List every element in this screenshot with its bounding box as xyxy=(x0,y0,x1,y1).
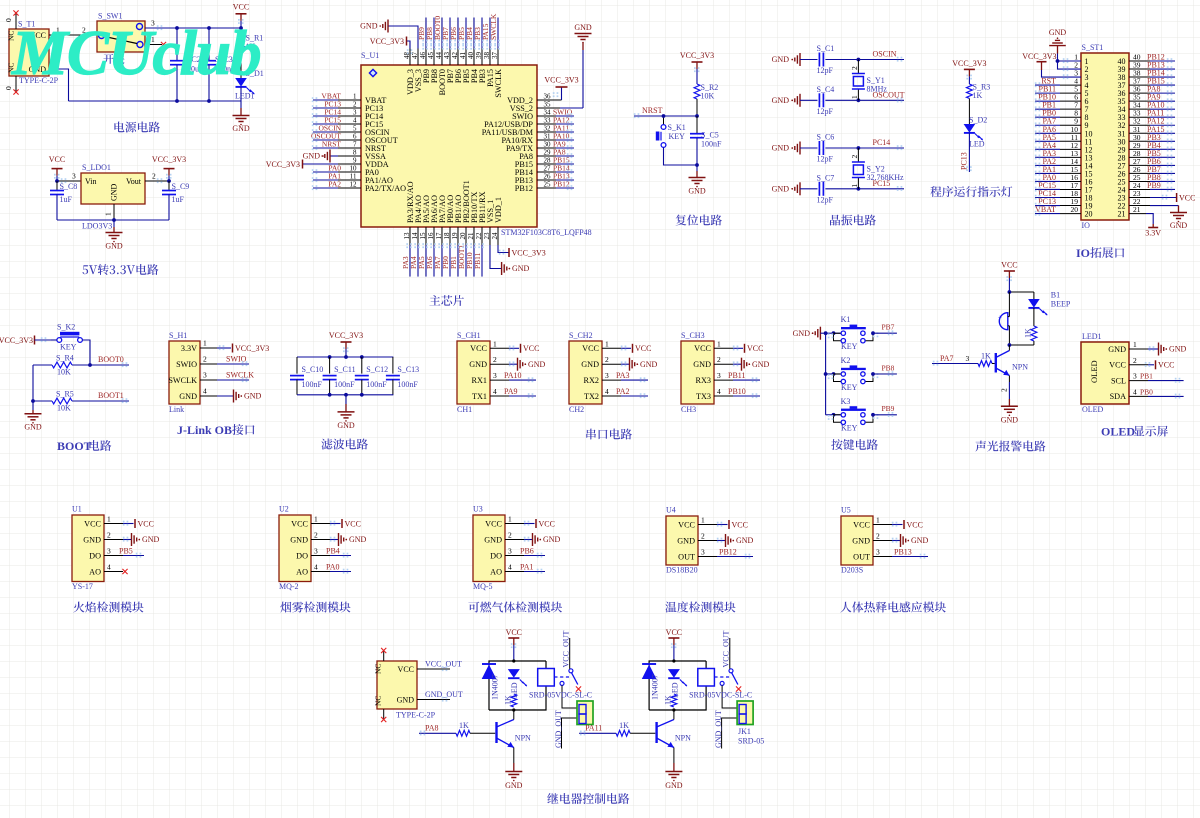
svg-text:VCC: VCC xyxy=(582,344,599,353)
header pin number 13 inside xyxy=(1085,153,1093,162)
wire net PB7 top xyxy=(441,18,452,66)
svg-text:PB9: PB9 xyxy=(1147,181,1161,190)
svg-text:35: 35 xyxy=(544,101,552,109)
power flag VCC_3V3 indicator xyxy=(952,59,986,84)
wire to gnd ldo xyxy=(113,220,115,233)
wire net PB8 header right xyxy=(1129,173,1175,184)
power flag VCC CH2 pin1 xyxy=(602,339,651,353)
svg-text:SDA: SDA xyxy=(1110,392,1126,401)
svg-text:+: + xyxy=(998,314,1002,322)
svg-text:GND_OUT: GND_OUT xyxy=(714,710,723,748)
title alarm circuit xyxy=(975,441,1045,452)
key K1 xyxy=(826,315,879,351)
svg-text:GND: GND xyxy=(665,781,683,790)
svg-text:GND: GND xyxy=(512,264,530,273)
ground GND relay PA11 xyxy=(665,772,683,791)
wire net PB5 U1 pin3 xyxy=(104,547,144,558)
ground GND U3 pin2 xyxy=(505,531,561,547)
svg-text:MQ-2: MQ-2 xyxy=(279,582,299,591)
wire net PA0 U2 pin4 xyxy=(311,563,351,574)
wire net PA10 CH1 pin3 xyxy=(490,371,536,382)
svg-text:29: 29 xyxy=(544,149,552,157)
header H1 jlink body xyxy=(168,331,200,414)
svg-text:VCC: VCC xyxy=(1158,361,1174,370)
svg-text:PA0: PA0 xyxy=(326,563,340,572)
wire net PA1 U3 pin4 xyxy=(505,563,545,574)
wire net PC13 indicator xyxy=(960,133,972,172)
svg-text:1N4007: 1N4007 xyxy=(650,674,659,700)
wire net PB0 bottom xyxy=(441,227,452,277)
svg-text:10K: 10K xyxy=(701,92,715,101)
relay switch PA11 xyxy=(714,669,741,692)
svg-text:3: 3 xyxy=(966,354,970,363)
mcu pin name VDD_2 xyxy=(507,93,551,105)
wire net PB12 right xyxy=(537,180,574,191)
svg-text:PB9: PB9 xyxy=(882,404,895,413)
mcu pin name PB8 xyxy=(427,52,439,84)
svg-text:S_LDO1: S_LDO1 xyxy=(82,163,111,172)
svg-text:S_C11: S_C11 xyxy=(334,365,356,374)
svg-text:S_CH1: S_CH1 xyxy=(457,331,481,340)
svg-text:GND: GND xyxy=(469,360,487,369)
wire net PA3 CH2 pin3 xyxy=(602,371,648,382)
svg-text:GND: GND xyxy=(397,696,415,705)
wire net PB1 oled pin3 xyxy=(1129,372,1184,383)
title 火焰检测模块 xyxy=(73,602,143,613)
svg-text:VCC: VCC xyxy=(138,519,154,528)
svg-text:4: 4 xyxy=(605,387,609,396)
transistor NPN relay PA11 xyxy=(657,710,692,748)
mcu pin name PA11/USB/DM xyxy=(482,125,551,137)
connector T1 TYPE-C-2P xyxy=(7,20,59,86)
svg-text:PB4: PB4 xyxy=(326,547,340,556)
svg-text:PA8: PA8 xyxy=(425,724,439,733)
svg-text:VCC: VCC xyxy=(233,3,249,12)
svg-text:34: 34 xyxy=(544,109,552,117)
capacitor C3 xyxy=(202,26,236,103)
svg-text:S_C1: S_C1 xyxy=(817,44,835,53)
wire net PA9 CH1 pin4 xyxy=(490,387,536,398)
svg-text:1: 1 xyxy=(104,212,113,216)
resistor 1K alarm xyxy=(1024,308,1037,345)
resistor R4 xyxy=(33,354,92,377)
svg-text:GND: GND xyxy=(852,536,870,545)
svg-text:3: 3 xyxy=(701,548,705,557)
power flag VCC U3 pin1 xyxy=(505,515,555,529)
title power circuit xyxy=(114,122,159,133)
svg-text:SCL: SCL xyxy=(1111,376,1126,385)
svg-text:S_C13: S_C13 xyxy=(397,365,419,374)
resistor 1K base PA11 xyxy=(579,721,655,736)
svg-text:2: 2 xyxy=(850,155,859,159)
header pin number 6 inside xyxy=(1085,97,1089,106)
svg-text:1K: 1K xyxy=(1024,328,1033,338)
header pin number 16 inside xyxy=(1085,177,1093,186)
svg-text:VCC: VCC xyxy=(1179,193,1195,202)
pin LDO pin1 down xyxy=(104,204,115,220)
svg-text:10K: 10K xyxy=(57,368,71,377)
svg-text:PB7: PB7 xyxy=(882,323,895,332)
svg-text:S_C12: S_C12 xyxy=(366,365,388,374)
module U2 MQ-2 body xyxy=(279,505,311,592)
power flag VCC ldo xyxy=(49,155,65,181)
wire net GND_OUT t2 xyxy=(417,690,463,702)
svg-text:S_R4: S_R4 xyxy=(56,354,74,363)
svg-text:21: 21 xyxy=(1133,205,1141,214)
wire net PA2 header left xyxy=(1035,157,1081,168)
svg-text:2: 2 xyxy=(701,532,705,541)
svg-text:GND: GND xyxy=(83,535,101,544)
svg-text:Vin: Vin xyxy=(85,177,97,186)
svg-text:RX3: RX3 xyxy=(696,376,711,385)
power flag 3.3V header pin21 xyxy=(1129,205,1161,237)
ground GND CH1 pin2 xyxy=(490,355,546,371)
svg-text:PA2/TX/AO: PA2/TX/AO xyxy=(365,184,406,193)
wire net PA10 header right xyxy=(1129,101,1175,112)
ground GND relay PA8 xyxy=(505,772,523,791)
ground GND CH2 pin2 xyxy=(602,355,658,371)
svg-text:TYPE-C-2P: TYPE-C-2P xyxy=(396,711,436,720)
svg-text:S_ST1: S_ST1 xyxy=(1082,43,1104,52)
svg-text:GND: GND xyxy=(772,184,790,193)
header pin number 10 inside xyxy=(1085,129,1093,138)
svg-text:28: 28 xyxy=(544,157,552,165)
power flag VCC_3V3 at VDDA pin9 xyxy=(266,160,361,169)
svg-text:VCC: VCC xyxy=(635,344,651,353)
svg-text:2: 2 xyxy=(493,355,497,364)
relay switch PA8 xyxy=(554,669,581,692)
svg-text:2: 2 xyxy=(314,531,318,540)
svg-text:GND: GND xyxy=(349,535,367,544)
svg-text:S_C9: S_C9 xyxy=(172,182,190,191)
svg-text:NPN: NPN xyxy=(1012,363,1028,372)
wire VCC to LDO pin3 xyxy=(55,172,81,184)
svg-text:VCC_3V3: VCC_3V3 xyxy=(952,59,986,68)
header pin number 27 inside xyxy=(1118,161,1126,170)
svg-text:1K: 1K xyxy=(459,721,469,730)
svg-text:1uF: 1uF xyxy=(60,195,73,204)
header pin number 26 inside xyxy=(1118,169,1126,178)
wire net PB8 key xyxy=(871,363,897,376)
svg-text:D203S: D203S xyxy=(841,566,863,575)
wire net PB10 header left xyxy=(1035,93,1081,104)
svg-text:GND: GND xyxy=(1001,416,1019,425)
header pin number 19 inside xyxy=(1085,202,1093,211)
wire filter top rail xyxy=(297,355,393,359)
wire net VCC_OUT switch PA8 xyxy=(561,630,570,668)
svg-text:4: 4 xyxy=(314,563,318,572)
led relay PA8 xyxy=(508,669,527,698)
svg-text:JK1: JK1 xyxy=(738,727,751,736)
svg-text:VCC: VCC xyxy=(485,519,502,528)
svg-text:GND: GND xyxy=(772,96,790,105)
connector CH1 body xyxy=(457,331,490,414)
header ST1 body xyxy=(1081,43,1129,230)
svg-text:S_K2: S_K2 xyxy=(57,323,75,332)
svg-text:20: 20 xyxy=(1085,210,1093,219)
mcu pin name PC15 xyxy=(353,117,383,129)
title reset circuit xyxy=(676,215,722,226)
svg-text:GND: GND xyxy=(179,392,197,401)
svg-text:VCC_3V3: VCC_3V3 xyxy=(329,331,363,340)
svg-text:1K: 1K xyxy=(619,721,629,730)
mcu pin name PA8 xyxy=(519,149,551,161)
resistor R3 xyxy=(967,83,991,101)
header pin number 38 inside xyxy=(1118,73,1126,82)
svg-text:GND: GND xyxy=(688,187,706,196)
svg-text:1K: 1K xyxy=(504,695,513,705)
wire net PB5 header right xyxy=(1129,149,1175,160)
power flag VCC_3V3 boot xyxy=(0,336,51,345)
wire net PB13 right xyxy=(537,172,574,183)
svg-text:GND: GND xyxy=(110,183,119,201)
wire net PA3 header left xyxy=(1035,149,1081,160)
svg-text:1K: 1K xyxy=(981,352,991,361)
svg-text:KEY: KEY xyxy=(60,343,77,352)
capacitor C9 xyxy=(162,181,189,220)
svg-text:U5: U5 xyxy=(841,506,851,515)
svg-text:PB8: PB8 xyxy=(882,363,895,372)
svg-text:26: 26 xyxy=(544,173,552,181)
wire net PA10 right xyxy=(537,132,574,143)
pin NC top stub of T1 xyxy=(4,10,19,29)
wire net PB3 top xyxy=(473,18,484,66)
wire net PB11 bottom xyxy=(473,227,484,277)
svg-text:VCC: VCC xyxy=(747,344,763,353)
wire net PA1 left xyxy=(312,172,361,183)
wire net PB7 header right xyxy=(1129,165,1175,176)
header pin number 37 inside xyxy=(1118,81,1126,90)
svg-text:PA9: PA9 xyxy=(504,387,518,396)
header pin number 2 inside xyxy=(1085,65,1089,74)
svg-text:36: 36 xyxy=(544,93,552,101)
power flag VCC_3V3 ldo xyxy=(152,155,186,181)
wire emitter gnd relay PA11 xyxy=(673,748,675,772)
wire relay frame PA11 xyxy=(649,659,706,711)
title 温度检测模块 xyxy=(665,601,735,612)
svg-text:SRD-05VDC-SL-C: SRD-05VDC-SL-C xyxy=(689,691,752,700)
power flag VCC U2 pin1 xyxy=(311,515,361,529)
svg-text:32.768KHz: 32.768KHz xyxy=(867,173,905,182)
wire net PA8 header right xyxy=(1129,85,1175,96)
wire T1 pin2 down to bottom rail xyxy=(49,60,69,102)
ground GND power xyxy=(232,116,250,134)
svg-text:PB10: PB10 xyxy=(728,387,746,396)
svg-text:S_C6: S_C6 xyxy=(817,133,835,142)
header pin number 15 inside xyxy=(1085,169,1093,178)
svg-text:GND: GND xyxy=(677,536,695,545)
svg-text:VCC: VCC xyxy=(291,519,308,528)
buzzer B1 xyxy=(998,292,1009,345)
wire net PA15 top xyxy=(481,18,492,66)
wire to gnd filter xyxy=(345,395,347,412)
mcu pin name PB10/TX xyxy=(467,192,479,240)
svg-text:1: 1 xyxy=(850,184,859,188)
svg-text:Vout: Vout xyxy=(126,177,142,186)
module U3 MQ-5 body xyxy=(473,505,505,592)
svg-text:3: 3 xyxy=(876,548,880,557)
svg-text:4: 4 xyxy=(1133,387,1137,396)
wire net PC13 header left xyxy=(1035,197,1081,208)
header pin number 18 inside xyxy=(1085,194,1093,203)
svg-text:OUT: OUT xyxy=(853,552,870,561)
capacitor C8 xyxy=(50,181,77,220)
capacitors C6 C7 and nets PC14 PC15 xyxy=(772,133,904,205)
svg-text:GND: GND xyxy=(793,329,811,338)
mcu pin name VDDA xyxy=(353,157,389,169)
wire T1 pin1 to SW1 xyxy=(49,26,97,36)
wire net PA3 bottom xyxy=(401,227,412,277)
mcu pin name PB15 xyxy=(515,157,551,169)
wire net SWCLK top xyxy=(489,13,500,65)
wire net PA15 header right xyxy=(1129,125,1175,136)
mcu pin name PA5/AO xyxy=(419,195,431,239)
svg-text:1: 1 xyxy=(314,515,318,524)
svg-text:LDO3V3: LDO3V3 xyxy=(82,222,112,231)
svg-text:MQ-5: MQ-5 xyxy=(473,582,493,591)
header pin number 4 inside xyxy=(1085,81,1089,90)
wire net PB8 top xyxy=(425,18,436,66)
svg-text:PB12: PB12 xyxy=(719,548,737,557)
svg-text:S_C5: S_C5 xyxy=(701,131,719,140)
wire LED to GND xyxy=(240,87,242,116)
ground GND header pin22 xyxy=(1129,197,1187,230)
title relay control circuit xyxy=(547,793,629,804)
wire keys trunk xyxy=(824,331,828,414)
title key circuit xyxy=(831,439,878,450)
svg-text:GND_OUT: GND_OUT xyxy=(425,690,463,699)
svg-text:AO: AO xyxy=(296,567,308,576)
ground GND at VSS_2 pin35 xyxy=(537,23,592,108)
mcu pin name SWIO xyxy=(512,109,551,121)
diode 1N4007 PA11 xyxy=(642,664,660,700)
svg-text:PB0: PB0 xyxy=(1140,387,1153,396)
svg-text:VCC: VCC xyxy=(470,344,487,353)
svg-text:S_H1: S_H1 xyxy=(169,331,187,340)
svg-text:VCC: VCC xyxy=(539,519,555,528)
svg-text:1: 1 xyxy=(717,339,721,348)
svg-text:3.3V: 3.3V xyxy=(1145,229,1161,238)
power flag VCC U4 pin1 xyxy=(698,516,748,530)
mcu pin name PA4/AO xyxy=(411,195,423,239)
resistor R2 xyxy=(694,83,718,116)
header pin number 12 inside xyxy=(1085,145,1093,154)
svg-text:12pF: 12pF xyxy=(817,155,834,164)
svg-text:GND: GND xyxy=(142,535,160,544)
wire ldo bottom rail xyxy=(57,218,169,222)
transistor Q NPN alarm xyxy=(996,345,1028,376)
svg-text:DO: DO xyxy=(296,551,308,560)
mcu pin name PB11/RX xyxy=(475,191,487,239)
svg-text:2: 2 xyxy=(876,532,880,541)
mcu pin name VDD_1 xyxy=(491,197,503,239)
svg-text:KEY: KEY xyxy=(841,383,858,392)
wire net PB15 header right xyxy=(1129,77,1175,88)
svg-text:GND: GND xyxy=(581,360,599,369)
wire LDO pin2 out xyxy=(145,172,171,184)
svg-text:AO: AO xyxy=(89,567,101,576)
title program run indicator xyxy=(930,186,1012,197)
led relay PA11 xyxy=(668,669,687,698)
svg-text:RX2: RX2 xyxy=(584,376,599,385)
svg-text:PA10: PA10 xyxy=(504,371,522,380)
svg-text:S_C10: S_C10 xyxy=(302,365,324,374)
wire switch common PA8 xyxy=(562,685,577,708)
regulator LDO1 xyxy=(81,163,145,204)
led D2 xyxy=(964,99,988,149)
wire net PB1 header left xyxy=(1035,101,1081,112)
svg-text:AO: AO xyxy=(490,567,502,576)
mcu pin name PB13 xyxy=(515,173,551,185)
wire net VCC_OUT switch PA11 xyxy=(721,630,730,668)
power flag VCC top xyxy=(233,3,249,28)
svg-text:VCC: VCC xyxy=(694,344,711,353)
power flag VCC relay PA8 xyxy=(506,628,522,661)
svg-text:GND: GND xyxy=(911,536,929,545)
svg-text:VCC: VCC xyxy=(1109,361,1126,370)
svg-text:3: 3 xyxy=(1133,372,1137,381)
mcu U1 body xyxy=(361,51,537,227)
svg-text:NPN: NPN xyxy=(675,734,691,743)
wire net GND_OUT jk PA8 xyxy=(554,710,577,748)
label SRD-05VDC-SL-C PA8 xyxy=(529,691,592,700)
wire relay frame PA8 xyxy=(489,659,546,711)
label SRD-05VDC-SL-C PA11 xyxy=(689,691,752,700)
svg-text:GND: GND xyxy=(543,535,561,544)
svg-text:32: 32 xyxy=(544,125,552,133)
wire to gnd reset xyxy=(695,163,699,177)
capacitors C1 C4 and nets OSCIN OSCOUT xyxy=(772,44,905,116)
svg-text:VCC: VCC xyxy=(49,155,65,164)
wire net VCC_OUT t2 xyxy=(417,659,462,671)
mcu pin name PA2/TX/AO xyxy=(350,181,407,193)
svg-text:VCC: VCC xyxy=(1001,261,1017,270)
svg-text:2: 2 xyxy=(717,355,721,364)
header pin number 7 inside xyxy=(1085,105,1089,114)
svg-text:PB12: PB12 xyxy=(553,180,570,189)
title crystal circuit xyxy=(830,215,876,226)
ground GND header top xyxy=(1049,28,1081,71)
svg-text:GND: GND xyxy=(693,360,711,369)
svg-text:VCC_3V3: VCC_3V3 xyxy=(680,51,714,60)
header pin number 32 inside xyxy=(1118,121,1126,130)
wire net PB4 header right xyxy=(1129,141,1175,152)
svg-text:3: 3 xyxy=(493,371,497,380)
svg-text:PB13: PB13 xyxy=(894,548,912,557)
svg-text:BOOT0: BOOT0 xyxy=(98,355,124,364)
svg-text:PA2: PA2 xyxy=(616,387,630,396)
wire net PA5 header left xyxy=(1035,133,1081,144)
svg-text:TX3: TX3 xyxy=(696,392,711,401)
svg-text:2: 2 xyxy=(850,66,859,70)
svg-text:3.3V: 3.3V xyxy=(181,344,197,353)
crystal Y2 32.768KHz xyxy=(850,148,904,189)
resistor 1K relay led PA11 xyxy=(664,694,677,707)
wire net PB7 key xyxy=(871,323,897,336)
resistor 1K relay led PA8 xyxy=(504,694,517,707)
header pin number 25 inside xyxy=(1118,177,1126,186)
svg-text:PB11: PB11 xyxy=(473,252,482,269)
svg-text:2: 2 xyxy=(508,531,512,540)
title 人体热释电感应模块 xyxy=(840,602,946,613)
wire net PC13 left xyxy=(312,100,361,111)
header pin number 34 inside xyxy=(1118,105,1126,114)
mcu pin name PA12/USB/DP xyxy=(484,117,551,129)
svg-text:CH3: CH3 xyxy=(681,405,696,414)
power flag VCC CH3 pin1 xyxy=(714,339,763,353)
svg-text:OLED: OLED xyxy=(1082,405,1104,414)
ground GND U2 pin2 xyxy=(311,531,367,547)
